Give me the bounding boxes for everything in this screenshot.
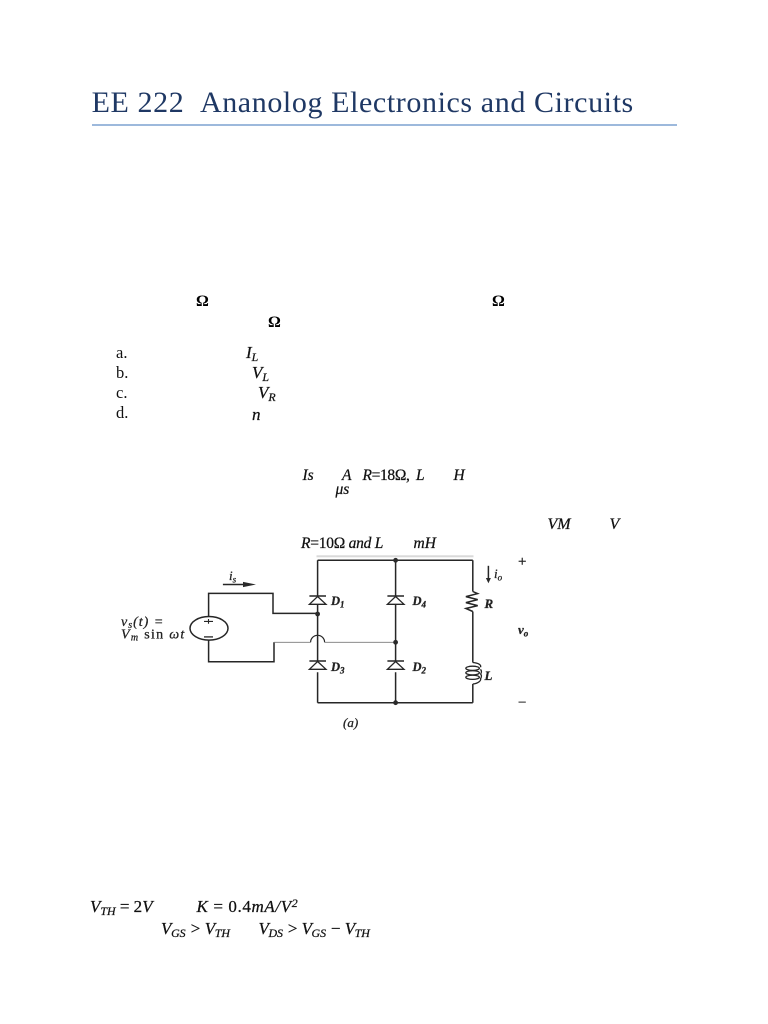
- svg-text:R: R: [484, 596, 494, 611]
- svg-text:D4: D4: [412, 594, 427, 610]
- arrow i_s: [223, 584, 243, 586]
- R=10ohm and L mH: [301, 536, 383, 552]
- omega 2 (right): [492, 294, 505, 310]
- svg-text:L: L: [484, 668, 493, 683]
- title underline: [92, 124, 677, 126]
- omega 3 (second line): [268, 315, 281, 331]
- diode D2: [387, 661, 404, 669]
- source V1 (AC) ellipse: [190, 617, 228, 641]
- junction dot: left rail / source top: [315, 612, 320, 617]
- bottom math line 2: [161, 920, 230, 937]
- junction dot: top wire / right rail: [393, 558, 398, 563]
- plus sign inside source: [204, 619, 213, 624]
- svg-text:is: is: [229, 568, 237, 585]
- omega 1: [196, 294, 209, 310]
- diode D3: [309, 661, 326, 669]
- wire: source top loop: [209, 593, 318, 616]
- wire: left rail: [317, 560, 319, 702]
- svg-text:Vm sin ωt: Vm sin ωt: [121, 628, 186, 644]
- bottom math line 1: [90, 898, 153, 915]
- wire: bridge top: [318, 559, 473, 561]
- mu s: [336, 482, 350, 498]
- resistor R zigzag: [466, 592, 478, 612]
- minus sign inside source: [204, 636, 213, 638]
- svg-text:(a): (a): [343, 715, 358, 730]
- svg-text:D3: D3: [330, 660, 345, 676]
- diode D4: [387, 596, 404, 604]
- inductor L coil: [466, 663, 482, 685]
- arrow i_o (down): [487, 566, 489, 579]
- list math IL VL VR n: [246, 344, 258, 361]
- svg-text:+: +: [518, 554, 526, 570]
- wire: load rail: [472, 560, 474, 702]
- diode D1: [309, 596, 326, 604]
- svg-text:D2: D2: [412, 660, 427, 676]
- wire: right rail: [395, 560, 397, 702]
- svg-text:−: −: [518, 695, 526, 711]
- list letters: [116, 345, 127, 362]
- junction dot: right rail mid: [393, 640, 398, 645]
- faint cropped text at figure top: [317, 555, 474, 557]
- math line: Is A R=18ohm, L H: [303, 468, 314, 484]
- wire hop arc over left rail: [311, 635, 325, 642]
- svg-text:D1: D1: [330, 594, 345, 610]
- wire: thin line to right rail with hop: [274, 641, 396, 643]
- wire: bridge bottom: [318, 702, 473, 704]
- title: [92, 88, 634, 118]
- svg-text:io: io: [494, 566, 503, 583]
- svg-text:vo: vo: [518, 622, 529, 639]
- wire: source bottom loop: [209, 640, 274, 662]
- VM V: [548, 517, 571, 533]
- junction dot: bottom wire / right rail: [393, 700, 398, 705]
